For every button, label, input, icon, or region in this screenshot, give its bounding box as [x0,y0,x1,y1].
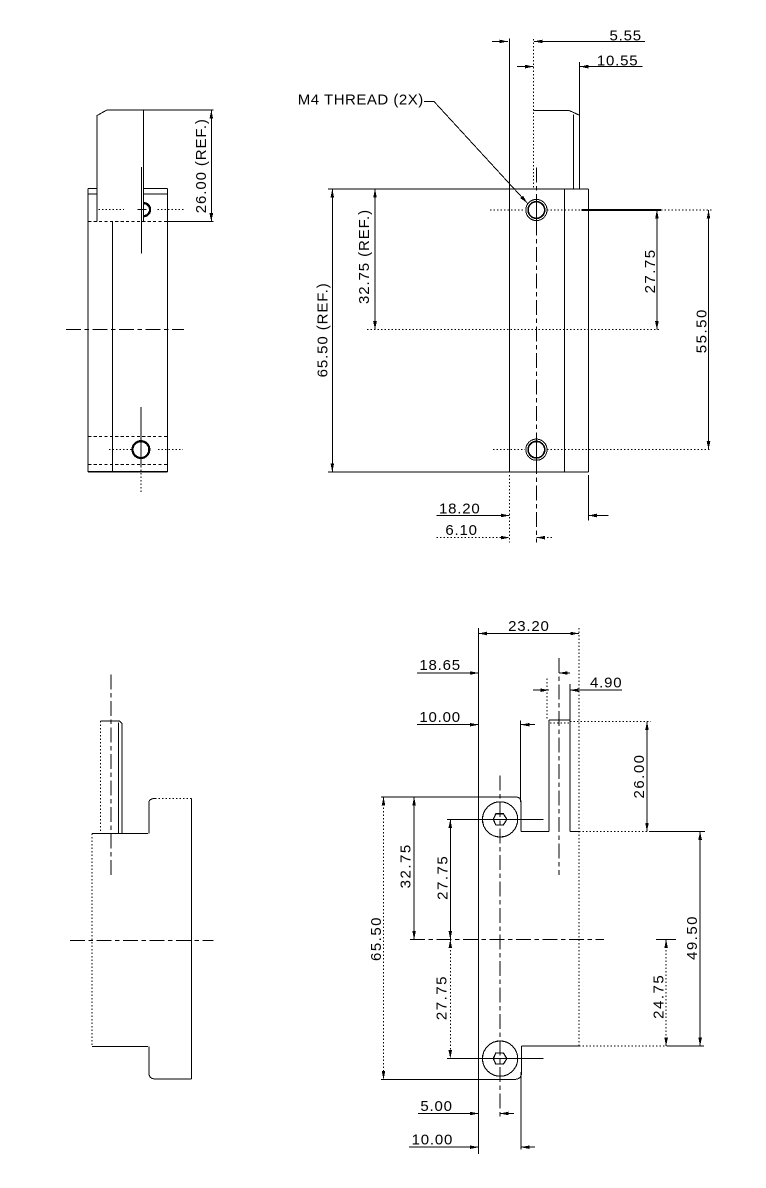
bottom-right rear view: plate right edge (hidden) [578,628,580,1046]
dimension 10.55 dimension line and arrows [517,66,534,68]
top-right front view: tab top chamfer [570,111,580,116]
dimension 49.50 dimension line [699,831,701,1046]
top-left side view: inner vertical edge [111,222,113,472]
bottom-left profile view: horizontal centerline [70,940,214,942]
extension of body bottom edge to 49.50 dimension [667,1045,704,1047]
top-left side view: lower hole vertical centerline [140,407,142,466]
dimension 32.75 (REF.) dimension line [374,189,376,330]
top-left side view: body left edge [87,189,89,472]
top-left side view: body bottom edge [88,471,167,473]
bottom-left profile view: plate bottom edge [155,1078,191,1080]
dimension 27.75 dimension line [656,210,658,330]
bottom-left profile view: tab top chamfer [119,721,122,724]
top-left side view: tab top chamfer [97,110,107,115]
extension line from upper hole to right dimensions [582,209,662,211]
bottom-right rear view: upper hole hex socket [493,814,507,825]
bottom-right rear view: plate bottom-right fillet [514,1072,521,1079]
bottom-right rear view: tab top edge [549,719,570,721]
svg-text:10.55: 10.55 [597,52,639,69]
svg-text:10.00: 10.00 [412,1131,454,1148]
bottom-right rear view: upper hole horizontal centerline [447,818,544,820]
bottom-left profile view: tab vertical centerline [110,674,112,876]
svg-text:6.10: 6.10 [445,522,477,539]
top-left side view: body right edge [166,189,168,472]
bottom-right rear view: upper notch vertical edge [520,802,522,831]
dimension 4.90 dimension line and arrows [533,689,549,691]
top-right front view: upper hole horizontal centerline [490,209,525,211]
top-left side view: lower hole horizontal centerline [109,449,133,451]
dimension 18.20 dimension line and arrows [437,515,510,517]
bottom-right rear view: tab vertical centerline [558,658,560,875]
top-left side view: upper hole vertical centerline [141,167,143,254]
top-right front view: horizontal centerline row [367,329,661,331]
top-right front view: tab top edge [534,110,570,112]
svg-text:4.90: 4.90 [590,674,622,691]
top-left side view: tab left edge [96,116,98,222]
bottom-left profile view: plate right edge [191,799,193,1079]
svg-text:10.00: 10.00 [419,709,461,726]
bottom-left profile view: flange left edge [91,834,93,1047]
top-left side view: horizontal centerline [66,328,184,330]
dimension 5.00 dimension line and arrows [418,1113,478,1115]
dimension 27.75 upper dimension line [449,819,451,939]
svg-text:M4 THREAD (2X): M4 THREAD (2X) [298,91,424,108]
bottom-right rear view: lower hole horizontal centerline [447,1058,544,1060]
svg-text:65.50 (REF.): 65.50 (REF.) [315,282,332,377]
top-right front view: upper hole thread outer circle [526,199,547,220]
top-right front view: body left edge with extension above [509,39,511,472]
bottom-right rear view: body bottom edge solid part [522,1045,579,1047]
top-left side view: tab right edge [143,110,145,222]
dimension 10.00 lower dimension line and arrows [409,1146,478,1148]
dimension 18.65 dimension line and arrows [417,672,478,674]
svg-text:27.75: 27.75 [434,975,451,1020]
top-left side view: upper hole horizontal centerline [98,209,123,211]
top-left side view: hidden lines at lower hole [88,435,167,437]
svg-text:5.55: 5.55 [610,27,642,44]
extension line above tab right edge [569,684,571,720]
top-right front view: body bottom edge with left extension [328,471,588,473]
top-right front view: vertical hole centerline [535,168,537,543]
top-right front view: tab hidden left edge (dashed) [533,39,535,189]
top-right front view: tab right edge with extension above [578,62,580,189]
bottom-right rear view: shelf edge right of tab [570,830,579,832]
bottom-right rear view: lower hole boss circle [483,1041,518,1076]
extension line below lower notch edge [520,1072,522,1150]
dimension 10.00 upper dimension line and arrows [417,724,478,726]
dimension 32.75 dimension line [413,797,415,940]
bottom-right rear view: tab chamfer line (hidden) [550,722,569,724]
dimension 26.00 extension line [570,721,651,723]
dimension 26.00 (REF.) extension lines [144,109,214,111]
top-right front view: upper hole inner circle [528,202,545,219]
bottom-left profile view: flange bottom edge [92,1046,148,1048]
extension of body top edge to 49.50 dimension [649,830,705,832]
bottom-right rear view: body bottom edge (hidden) [579,1045,667,1047]
svg-text:32.75: 32.75 [398,843,415,888]
svg-text:65.50: 65.50 [368,916,385,961]
dimension 23.20 dimension line [478,633,578,635]
dimension 27.75 lower dimension line [449,940,451,1059]
dimension 18.20 extension lines [509,475,511,543]
dimension 65.50 (REF.) dimension line [331,189,333,472]
top-right front view: lower hole horizontal centerline row [493,449,525,451]
dimension 55.50 dimension line [708,210,710,450]
bottom-left profile view: tab top edge [101,720,120,722]
svg-text:18.65: 18.65 [419,657,461,674]
bottom-left profile view: flange top edge [92,833,148,835]
bottom-left profile view: tab left hidden edge [100,721,102,833]
bottom-right rear view: plate top edge with left extension [381,796,515,798]
bottom-left profile view: tab inner edge [117,723,119,834]
top-right front view: inner vertical edge [564,189,566,472]
svg-text:23.20: 23.20 [508,618,550,635]
top-left side view: tab top edge [107,109,144,111]
bottom-right rear view: body top edge (hidden) [579,830,650,832]
svg-text:32.75 (REF.): 32.75 (REF.) [356,209,373,304]
svg-text:5.00: 5.00 [420,1098,452,1115]
centerline tick at 24.75 dimension [656,939,676,941]
bottom-right rear view: plate top-right fillet [515,797,521,802]
top-left side view: body top edge (left of tab) [88,188,97,190]
bottom-right rear view: vertical hole centerline [499,775,501,1118]
top-right front view: body right edge [587,189,589,472]
bottom-left profile view: plate upper-left edge and fillet [148,803,150,834]
svg-text:24.75: 24.75 [651,974,668,1019]
solid centerline segments through holes [535,196,537,224]
top-left side view: hidden line at tab bottom [88,221,167,223]
dimension 65.50 dimension line [383,797,385,1079]
bottom-left profile view: plate top edge (hidden) [155,798,191,800]
top-right front view: lower hole inner circle [528,441,545,458]
top-right front view: lower hole thread outer circle [526,439,547,460]
bottom-left profile view: tab right edge [121,724,123,834]
svg-text:27.75: 27.75 [435,855,452,900]
dimension 5.55 dimension line and arrows [492,40,508,42]
svg-text:49.50: 49.50 [684,915,701,960]
dimension 24.75 dimension line [665,940,667,1047]
bottom-left profile view: plate lower-left edge and fillet [148,1047,150,1073]
top-left side view: upper hole M4 arc [144,203,151,216]
bottom-right rear view: plate bottom edge with left extension [381,1078,514,1080]
leader line from label to upper hole [424,102,527,204]
bottom-right rear view: tab left edge [548,720,550,831]
bottom-right rear view: horizontal centerline [410,939,604,941]
extension line above tab left edge [546,678,548,720]
top-left side view: body top edge (right of tab) [144,188,168,190]
bottom-right rear view: upper hole boss circle [483,802,518,837]
svg-text:18.20: 18.20 [439,500,481,517]
svg-text:26.00 (REF.): 26.00 (REF.) [193,118,210,213]
bottom-right rear view: lower hole hex socket [493,1053,507,1064]
bottom-right rear view: shelf edge left of tab [521,830,549,832]
dimension 26.00 (REF.) dimension line [210,110,212,222]
extension line above upper notch edge [520,720,522,802]
bottom-right rear view: tab right edge [569,720,571,831]
top-right front view: body top edge with left extension [328,188,588,190]
dimension 26.00 dimension line [646,722,648,832]
svg-text:26.00: 26.00 [631,753,648,798]
top-right front view: tab inner edge [573,115,575,190]
top-left side view: lower hole circle [133,441,150,458]
dimension 6.10 dimension line and arrows [437,537,510,539]
bottom-right rear view: plate left edge with extensions [477,628,479,1154]
bottom-right rear view: lower notch vertical edge [521,1046,523,1072]
svg-text:55.50: 55.50 [694,308,711,353]
svg-text:27.75: 27.75 [642,248,659,293]
